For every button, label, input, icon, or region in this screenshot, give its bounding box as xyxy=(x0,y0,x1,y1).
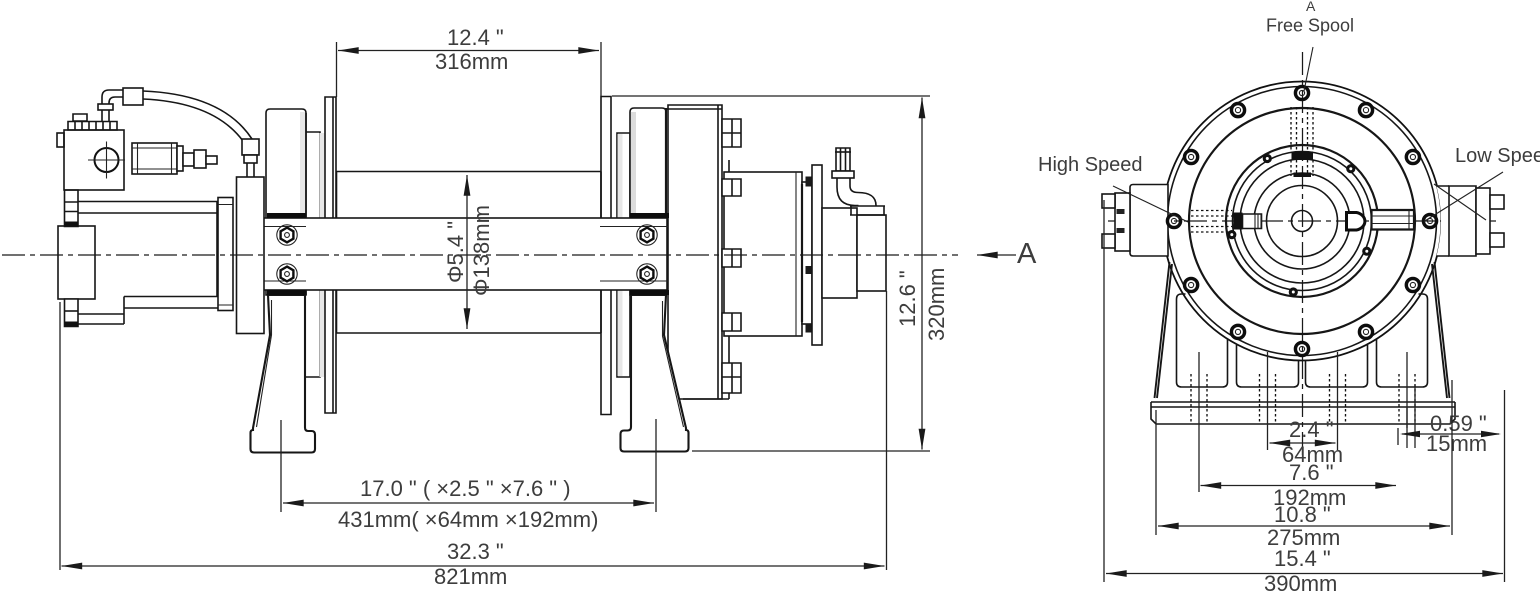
dim 12.4"/316mm extension lines xyxy=(337,42,602,97)
svg-text:7.6 ": 7.6 " xyxy=(1289,460,1334,485)
hex bolt left top xyxy=(277,225,297,245)
svg-text:32.3 ": 32.3 " xyxy=(447,539,504,564)
ring 2 xyxy=(812,165,822,345)
inner housing circle thick xyxy=(1226,145,1378,297)
svg-text:A: A xyxy=(1017,238,1037,270)
hub circle xyxy=(1267,186,1338,257)
valve left nub xyxy=(57,133,64,147)
svg-text:Φ5.4 ": Φ5.4 " xyxy=(443,221,468,283)
inner housing circle xyxy=(1233,152,1372,291)
dim 17.0" extension lines xyxy=(281,470,656,512)
leader to free spool bolt xyxy=(1304,47,1313,91)
hose: right fitting at crossbar xyxy=(242,139,259,155)
dim 0.59"/15mm xyxy=(1398,385,1415,448)
hydraulic motor: left end cap xyxy=(58,226,95,299)
left port marks xyxy=(1117,209,1125,214)
dim 12.4"/316mm arrow xyxy=(338,50,599,52)
dim 10.8"/275mm arrow xyxy=(1158,525,1450,527)
right foot bracket xyxy=(621,295,689,452)
left foot centre tick xyxy=(280,420,282,470)
mount bracket base plate xyxy=(1151,402,1455,424)
slot 1 xyxy=(1177,294,1228,387)
dim 15.4"/390mm extension lines xyxy=(1104,200,1505,582)
right axis splined shaft xyxy=(1372,210,1415,230)
brake release column xyxy=(237,177,265,334)
right side tab top xyxy=(1490,195,1504,209)
gear circle xyxy=(1240,159,1364,283)
ring 1 xyxy=(802,182,812,324)
dim 32.3"/821mm arrow xyxy=(62,565,885,567)
crossbar tie-bar xyxy=(239,218,667,290)
free spool clamp solid xyxy=(1292,152,1314,161)
left side tab top xyxy=(1102,194,1115,208)
inner bolt ring (5 bolts) xyxy=(1227,154,1371,297)
right side tab bottom xyxy=(1490,233,1504,247)
svg-text:10.8 ": 10.8 " xyxy=(1274,502,1331,527)
hidden spline lines top (free spool shaft) xyxy=(1291,107,1313,176)
svg-text:Free Spool: Free Spool xyxy=(1266,16,1354,36)
drum barrel xyxy=(337,172,602,334)
hydraulic motor: lower ring stack xyxy=(65,299,79,327)
slot 4 xyxy=(1377,294,1428,387)
elbow pipe: vertical fitting xyxy=(836,148,850,171)
dim (phi)5.4"/138mm vertical arrow xyxy=(466,175,468,329)
svg-text:A: A xyxy=(1306,0,1316,14)
dim 15.4"/390mm arrow xyxy=(1106,573,1503,575)
hex bolt left bottom xyxy=(277,264,297,284)
dim 2.4"/64mm arrow xyxy=(1270,442,1336,444)
solenoid fitting and stem xyxy=(183,153,194,166)
left side flange xyxy=(1115,193,1130,251)
left side block xyxy=(1130,185,1168,257)
dim 32.3"/821mm extension lines xyxy=(60,291,887,570)
leader high speed xyxy=(1113,186,1188,222)
left side tab bottom xyxy=(1102,234,1115,248)
slot 2 xyxy=(1237,345,1299,387)
hidden bolt holes in base xyxy=(1191,374,1415,424)
right support plate xyxy=(630,108,666,295)
motor end cylinder xyxy=(822,208,857,298)
wire: horizontal centerline of winch axis xyxy=(2,254,958,256)
right gusset line xyxy=(1434,184,1486,220)
left flange disc B xyxy=(320,133,325,377)
right wing plate xyxy=(1437,186,1450,256)
cover circle xyxy=(1189,108,1415,334)
svg-text:12.6 ": 12.6 " xyxy=(895,270,920,327)
hidden spline lines left axis xyxy=(1191,211,1232,233)
svg-text:12.4 ": 12.4 " xyxy=(447,25,504,50)
dim 12.6"/320mm arrow xyxy=(921,98,923,450)
gear housing flange plate xyxy=(668,105,722,399)
dim 12.6"/320mm extension lines xyxy=(612,96,930,451)
svg-text:320mm: 320mm xyxy=(924,268,949,341)
dim 7.6"/192mm arrow xyxy=(1201,485,1397,487)
svg-text:15mm: 15mm xyxy=(1426,431,1487,456)
slot bolt hole ticks xyxy=(1199,352,1407,492)
left axis cylinder xyxy=(1243,214,1262,229)
center hole xyxy=(1292,211,1313,232)
dim 10.8"/275mm extension lines xyxy=(1156,380,1452,535)
elbow pipe: base flange xyxy=(850,206,885,215)
hose: curved tube xyxy=(143,91,252,141)
outer bolt ring (12 bolts) xyxy=(1167,86,1436,355)
svg-text:High Speed: High Speed xyxy=(1038,154,1143,176)
hose: down pipe xyxy=(247,163,254,177)
dim 17.0" arrow xyxy=(283,502,654,504)
motor end cap xyxy=(857,215,886,291)
svg-text:15.4 ": 15.4 " xyxy=(1274,546,1331,571)
left flange disc A xyxy=(305,132,320,377)
hydraulic motor body xyxy=(65,202,217,325)
hose: upper fitting box xyxy=(123,88,143,105)
mount bracket right slant xyxy=(1432,262,1450,398)
valve crosshair symbol xyxy=(95,148,119,172)
svg-text:Φ138mm: Φ138mm xyxy=(469,205,494,296)
right flange disc B xyxy=(601,97,611,415)
brake cylinder xyxy=(724,172,802,336)
svg-text:2.4 ": 2.4 " xyxy=(1289,417,1334,442)
hub circle 2 xyxy=(1254,173,1350,269)
wire: vertical centerline xyxy=(1302,52,1304,456)
valve block on motor top xyxy=(64,130,124,190)
svg-text:17.0 " ( ×2.5 " ×7.6 " ): 17.0 " ( ×2.5 " ×7.6 " ) xyxy=(360,476,571,501)
leader low speed xyxy=(1424,172,1503,222)
hose: left elbow fitting at valve top xyxy=(102,110,109,121)
right foot centre tick xyxy=(655,419,657,470)
housing flange circle xyxy=(1168,87,1437,356)
right flange disc A xyxy=(617,133,630,377)
wire: horizontal centerline xyxy=(1108,220,1496,222)
crossbar heavy joints at right plate xyxy=(630,216,669,293)
right side flange xyxy=(1476,188,1490,254)
hex bolt right bottom xyxy=(637,264,657,284)
valve terminal strip xyxy=(68,122,117,131)
section arrow A xyxy=(977,254,1016,256)
svg-text:Low Speed: Low Speed xyxy=(1455,145,1540,167)
slot 3 xyxy=(1306,345,1368,387)
elbow pipe: curved tube xyxy=(837,178,876,206)
mount bracket left slant xyxy=(1155,262,1173,398)
right side block xyxy=(1449,186,1476,256)
left axis clamp solid xyxy=(1234,213,1243,230)
hydraulic motor: upper ring stack xyxy=(65,190,79,227)
svg-text:821mm: 821mm xyxy=(434,564,507,589)
left foot bracket xyxy=(251,295,316,453)
motor bearing plate xyxy=(218,198,233,311)
housing outer circle xyxy=(1163,82,1442,361)
svg-text:390mm: 390mm xyxy=(1264,571,1337,594)
crossbar heavy joints at left plate xyxy=(267,216,306,293)
svg-text:316mm: 316mm xyxy=(435,49,508,74)
hex bolt right top xyxy=(637,225,657,245)
gear housing bolt studs xyxy=(722,119,741,147)
right axis D-part xyxy=(1347,213,1365,231)
motor bottom sub-flange xyxy=(124,297,219,309)
svg-text:431mm( ×64mm ×192mm): 431mm( ×64mm ×192mm) xyxy=(338,507,598,532)
solenoid cylinder on valve xyxy=(132,143,177,174)
left support plate xyxy=(266,109,306,295)
